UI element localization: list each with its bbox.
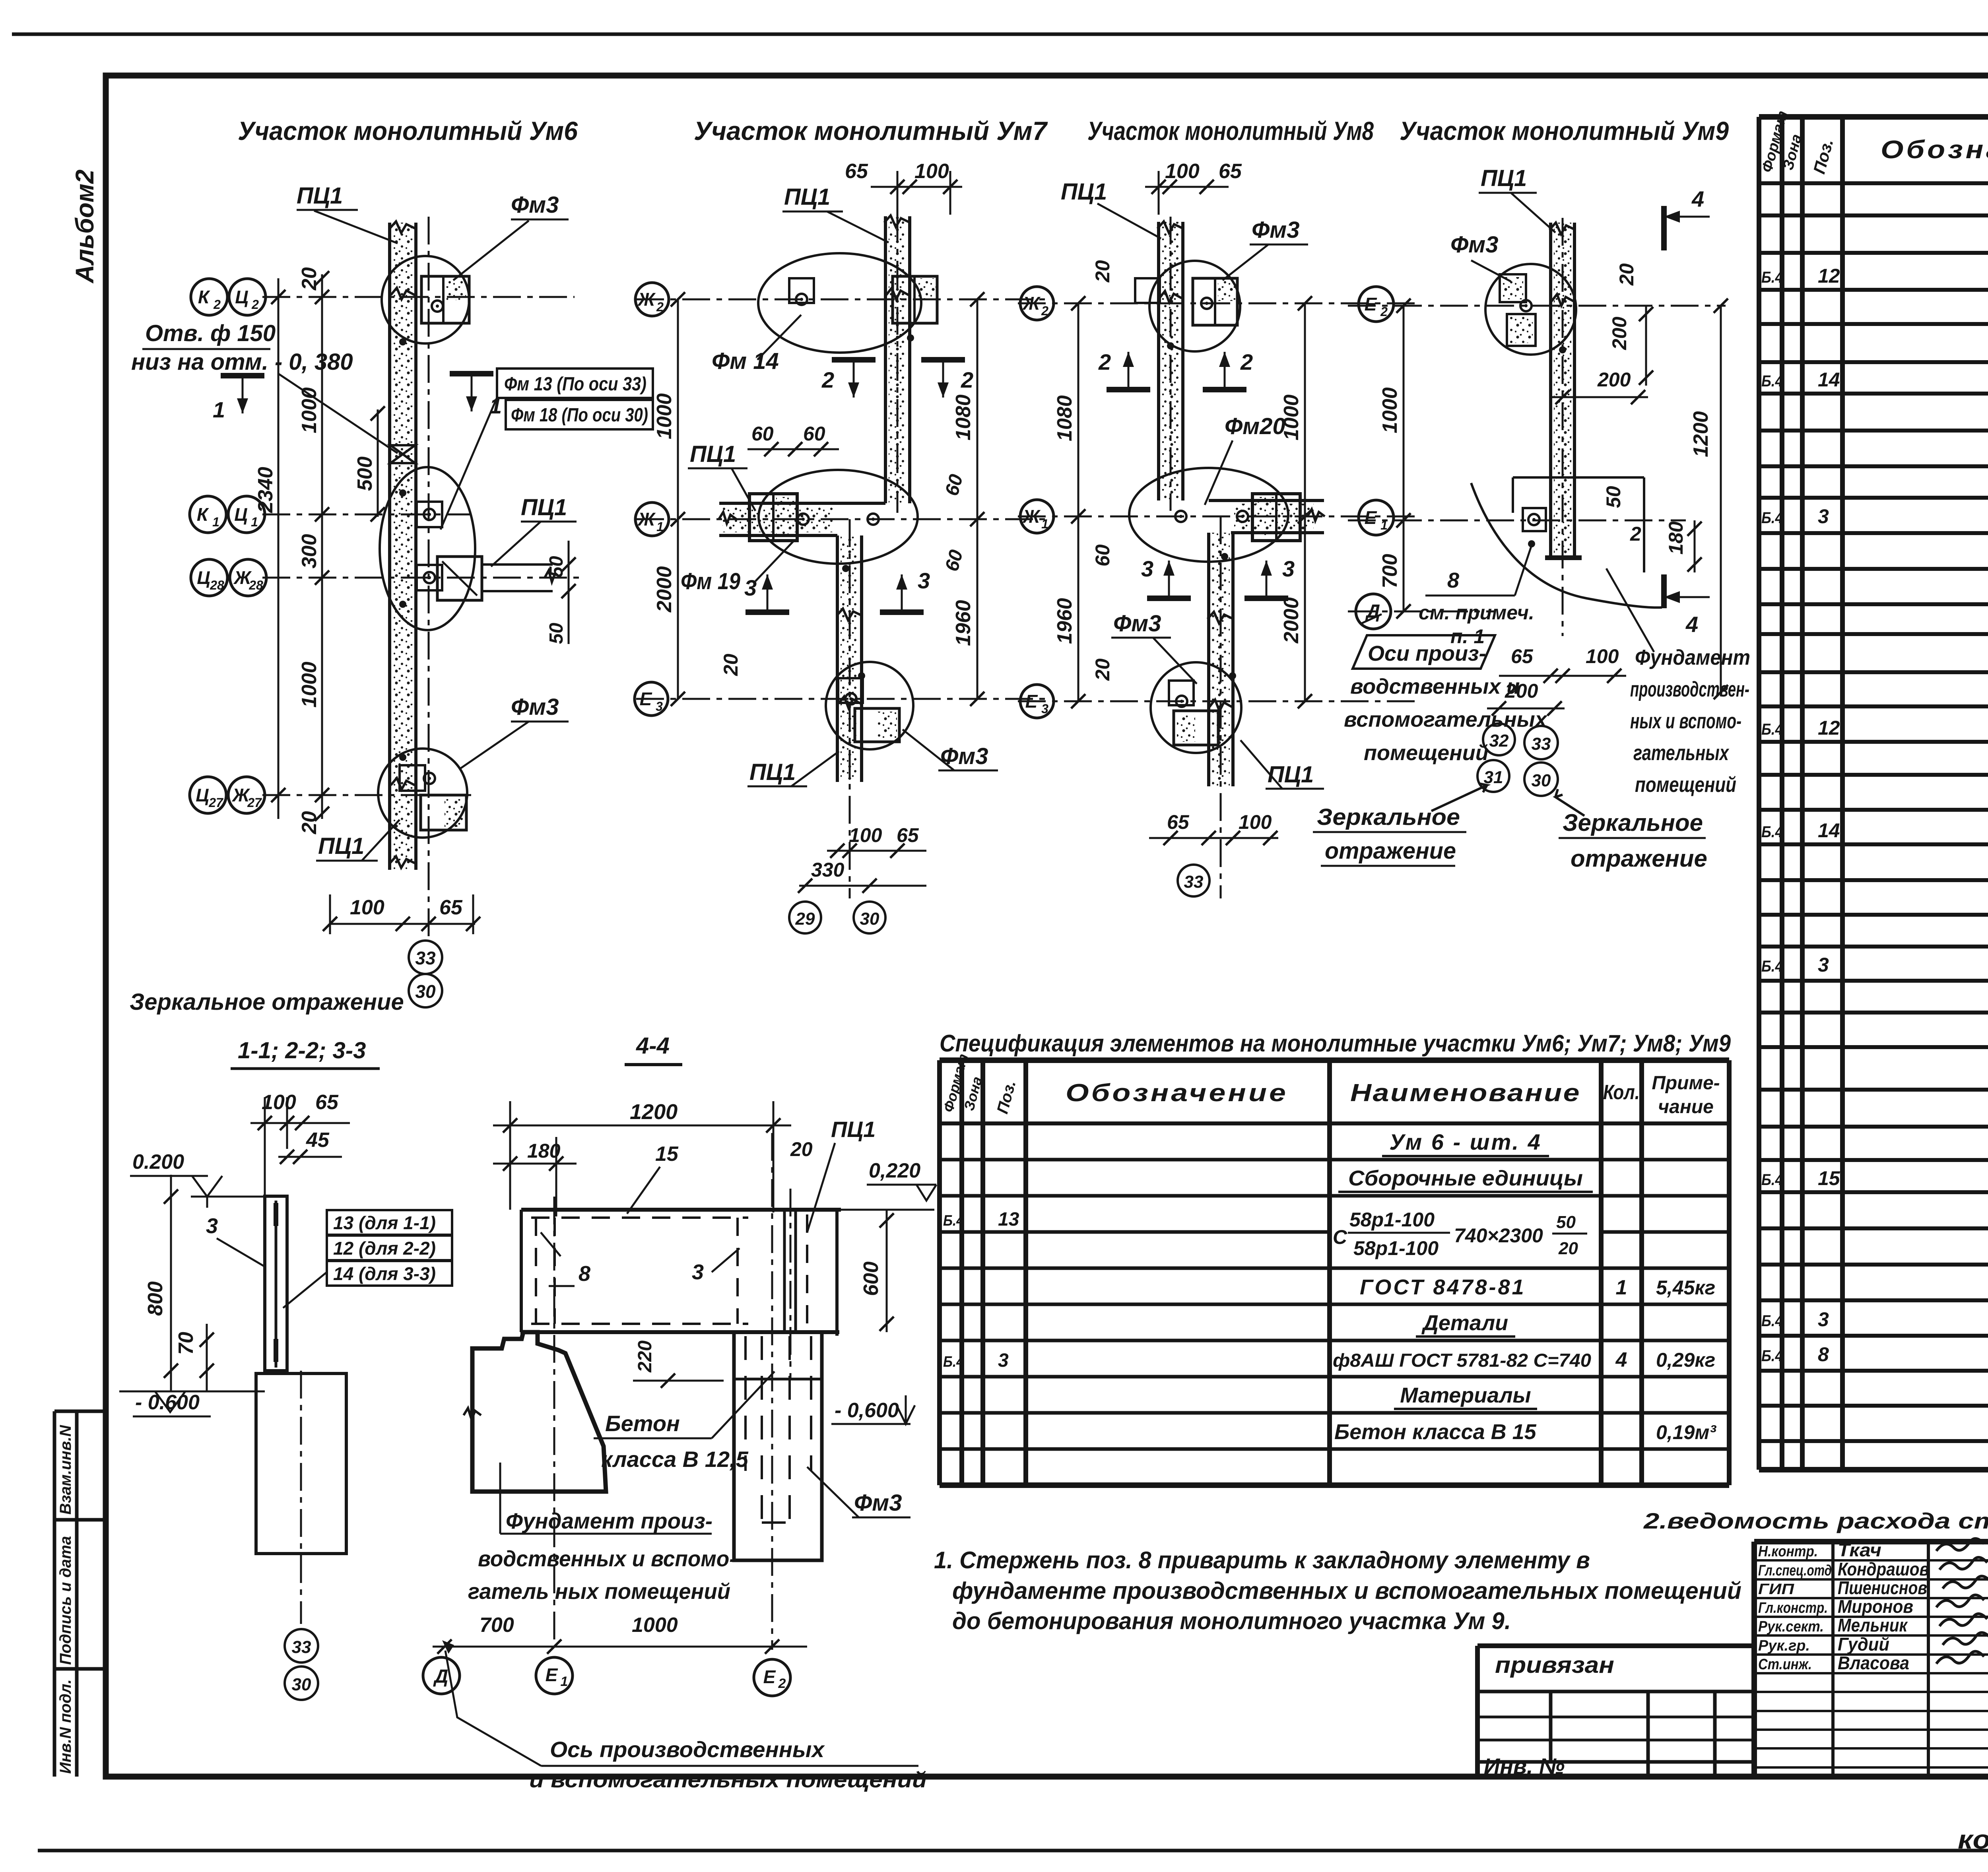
svg-text:Б.4: Б.4 xyxy=(1761,958,1783,975)
Um6 bottom dims 100 65 xyxy=(330,923,475,925)
svg-text:2: 2 xyxy=(213,297,221,312)
svg-text:Ж: Ж xyxy=(637,509,656,530)
svg-text:15: 15 xyxy=(1818,1167,1840,1189)
svg-text:ГИП: ГИП xyxy=(1758,1581,1794,1598)
svg-text:1: 1 xyxy=(213,397,225,422)
svg-text:50: 50 xyxy=(546,623,567,644)
svg-text:Обозначение: Обозначение xyxy=(1066,1079,1288,1107)
svg-text:Бетон: Бетон xyxy=(605,1411,680,1436)
svg-text:Миронов: Миронов xyxy=(1838,1596,1913,1617)
svg-text:33: 33 xyxy=(1184,872,1204,892)
svg-text:2: 2 xyxy=(1630,523,1641,545)
Um9 section 4 marker top xyxy=(1661,206,1667,250)
svg-text:помещений: помещений xyxy=(1364,741,1489,765)
Um7 section 3 markers xyxy=(745,609,789,615)
svg-text:32: 32 xyxy=(1489,731,1509,751)
Um9 dim 1200 xyxy=(1720,306,1722,692)
svg-text:ф8АШ ГОСТ 5781-82 С=740: ф8АШ ГОСТ 5781-82 С=740 xyxy=(1333,1350,1591,1371)
svg-text:Участок монолитный Ум8: Участок монолитный Ум8 xyxy=(1087,116,1374,145)
svg-text:65: 65 xyxy=(1167,811,1190,833)
svg-text:водственных и: водственных и xyxy=(1350,675,1520,698)
svg-text:Е: Е xyxy=(546,1664,558,1685)
Um6 top detail node xyxy=(382,256,469,343)
svg-text:2: 2 xyxy=(961,367,973,392)
Um8 bottom dims 65 100 xyxy=(1149,837,1278,839)
svg-text:Ц: Ц xyxy=(234,504,248,525)
Um9 wall xyxy=(1549,223,1552,558)
svg-text:58р1-100: 58р1-100 xyxy=(1353,1237,1439,1259)
svg-text:гательных: гательных xyxy=(1633,741,1730,765)
svg-text:20: 20 xyxy=(298,811,321,834)
svg-text:Ж: Ж xyxy=(1022,293,1041,314)
svg-text:1000: 1000 xyxy=(653,393,676,439)
svg-text:1-1; 2-2; 3-3: 1-1; 2-2; 3-3 xyxy=(238,1038,366,1063)
svg-text:100: 100 xyxy=(849,824,882,846)
svg-text:2: 2 xyxy=(656,300,664,314)
svg-text:Фм3: Фм3 xyxy=(511,694,559,720)
svg-text:700: 700 xyxy=(1378,554,1402,588)
Um6 axis K1 C1 xyxy=(262,514,471,516)
sec44 foundation caption xyxy=(499,1463,501,1534)
svg-text:65: 65 xyxy=(439,896,463,919)
svg-text:20: 20 xyxy=(1615,263,1638,286)
svg-text:Ц: Ц xyxy=(235,287,248,307)
svg-text:0.200: 0.200 xyxy=(132,1150,184,1174)
svg-text:ПЦ1: ПЦ1 xyxy=(749,759,796,785)
svg-text:12: 12 xyxy=(1818,265,1840,287)
svg-text:12: 12 xyxy=(1818,717,1840,739)
svg-text:Б.4: Б.4 xyxy=(1761,1347,1783,1365)
svg-text:45: 45 xyxy=(306,1129,330,1152)
sheet bottom border line xyxy=(38,1849,1988,1853)
svg-text:1200: 1200 xyxy=(630,1100,678,1124)
svg-text:Д: Д xyxy=(433,1666,448,1687)
Um8 axis E3 xyxy=(1018,700,1419,702)
svg-text:Отв. ф 150: Отв. ф 150 xyxy=(145,320,276,346)
svg-text:800: 800 xyxy=(144,1281,167,1316)
svg-text:20: 20 xyxy=(1091,658,1114,681)
svg-text:помещений: помещений xyxy=(1635,773,1736,797)
svg-text:Материалы: Материалы xyxy=(1400,1383,1531,1407)
svg-text:производствен-: производствен- xyxy=(1630,677,1749,701)
svg-text:и вспомогательных помещений: и вспомогательных помещений xyxy=(529,1767,927,1792)
svg-text:вспомогательных: вспомогательных xyxy=(1344,708,1548,731)
svg-text:Фм3: Фм3 xyxy=(1252,217,1299,243)
svg-text:Ум 6 - шт. 4: Ум 6 - шт. 4 xyxy=(1389,1129,1542,1154)
svg-text:4: 4 xyxy=(1691,186,1704,211)
svg-text:12 (для 2-2): 12 (для 2-2) xyxy=(333,1238,436,1259)
svg-text:33: 33 xyxy=(292,1637,311,1657)
Um7 top detail node xyxy=(758,253,921,353)
svg-text:2.ведомость расхода стали: 2.ведомость расхода стали на Ум6, Ум7, У… xyxy=(1643,1508,1988,1533)
svg-text:8: 8 xyxy=(579,1262,590,1286)
svg-text:200: 200 xyxy=(1505,680,1538,702)
svg-text:С: С xyxy=(1333,1226,1347,1248)
svg-text:ПЦ1: ПЦ1 xyxy=(1061,179,1107,205)
svg-text:Б.4: Б.4 xyxy=(1761,1171,1783,1189)
svg-text:0,19м³: 0,19м³ xyxy=(1656,1421,1716,1443)
svg-text:1960: 1960 xyxy=(952,600,975,646)
svg-text:220: 220 xyxy=(635,1340,656,1373)
svg-text:70: 70 xyxy=(175,1332,198,1355)
svg-text:Зеркальное: Зеркальное xyxy=(1563,809,1703,836)
svg-text:копировал Варич: копировал Варич xyxy=(1958,1825,1988,1854)
Um6 bottom axis circles 33 30 xyxy=(409,941,442,974)
svg-text:Зеркальное отражение: Зеркальное отражение xyxy=(130,989,404,1015)
Um8 top detail node xyxy=(1149,261,1240,351)
svg-text:3: 3 xyxy=(692,1260,704,1284)
svg-text:Гудий: Гудий xyxy=(1838,1634,1889,1655)
svg-text:29: 29 xyxy=(795,909,815,929)
Um8 middle detail node xyxy=(1129,468,1288,562)
Um6 axis C28 Zh28 xyxy=(262,577,580,579)
svg-text:5,45кг: 5,45кг xyxy=(1656,1276,1715,1299)
svg-text:3: 3 xyxy=(744,575,757,600)
svg-text:фундаменте производственных: фундаменте производственных и вспомогате… xyxy=(952,1577,1741,1604)
svg-text:Бетон класса В 15: Бетон класса В 15 xyxy=(1334,1420,1537,1444)
Um7 dim 1080 right xyxy=(977,299,978,519)
svg-text:2: 2 xyxy=(251,297,259,312)
svg-text:низ на отм. - 0, 380: низ на отм. - 0, 380 xyxy=(131,349,353,375)
Um8 bottom detail node xyxy=(1151,662,1241,753)
sheet top border line xyxy=(12,33,1988,36)
Um8 axis Zh2 xyxy=(1018,303,1419,305)
Um7 axis Zh1 xyxy=(636,518,1050,520)
Um9 axis E1 xyxy=(1348,520,1686,522)
svg-text:33: 33 xyxy=(1532,734,1551,754)
svg-text:50: 50 xyxy=(546,556,567,577)
svg-text:Гл.спец.отд: Гл.спец.отд xyxy=(1758,1562,1832,1579)
Um6 bottom detail node xyxy=(378,749,467,838)
svg-text:180: 180 xyxy=(527,1140,561,1162)
svg-text:200: 200 xyxy=(1597,369,1631,391)
Um9 axis E2 xyxy=(1348,305,1726,307)
svg-text:3: 3 xyxy=(1818,505,1829,528)
sec11 circles 33 30 xyxy=(285,1629,318,1662)
svg-text:1: 1 xyxy=(1380,518,1388,532)
svg-text:20: 20 xyxy=(790,1138,813,1160)
svg-text:Ж: Ж xyxy=(637,289,656,310)
sec44 dim 600 xyxy=(886,1210,888,1332)
Um9 foundation top line xyxy=(1513,476,1644,479)
svg-text:Ось производственных: Ось производственных xyxy=(550,1737,825,1762)
sec44 right column foundation xyxy=(734,1332,822,1560)
svg-text:Б.4: Б.4 xyxy=(1761,1312,1783,1330)
sec11 wall section xyxy=(265,1196,287,1371)
svg-text:13 (для 1-1): 13 (для 1-1) xyxy=(333,1212,436,1233)
svg-text:8: 8 xyxy=(1447,568,1459,592)
svg-text:100: 100 xyxy=(1239,811,1272,833)
svg-text:Инв. №: Инв. № xyxy=(1484,1754,1565,1779)
svg-text:Фм3: Фм3 xyxy=(511,192,559,218)
svg-text:3: 3 xyxy=(1282,556,1295,581)
svg-text:2: 2 xyxy=(1240,349,1253,374)
svg-text:Приме-: Приме- xyxy=(1652,1073,1720,1094)
svg-text:Фм3: Фм3 xyxy=(1450,232,1498,258)
left margin stamp strip xyxy=(53,1411,56,1777)
svg-text:500: 500 xyxy=(353,456,377,491)
svg-text:Е: Е xyxy=(763,1666,776,1687)
svg-text:Е: Е xyxy=(1365,507,1377,528)
sec11 boxed labels 13 12 14 xyxy=(327,1210,452,1235)
Um9 section 4 marker bottom xyxy=(1661,574,1667,608)
svg-text:Фм20: Фм20 xyxy=(1225,413,1285,439)
sec44 axis caption xyxy=(442,1640,454,1654)
svg-text:Мельник: Мельник xyxy=(1838,1615,1908,1635)
svg-text:Подпись и дата: Подпись и дата xyxy=(57,1536,74,1665)
Um8 T-joint xyxy=(1209,499,1324,502)
svg-text:1: 1 xyxy=(656,520,664,534)
svg-text:Рук.сект.: Рук.сект. xyxy=(1758,1618,1824,1635)
Um8 dim 1080 left xyxy=(1077,303,1079,516)
svg-text:Детали: Детали xyxy=(1421,1311,1508,1335)
svg-text:Сборочные единицы: Сборочные единицы xyxy=(1348,1166,1583,1190)
svg-text:до бетонирования монолитног: до бетонирования монолитного участка Ум … xyxy=(952,1608,1511,1634)
title block (stamp) xyxy=(1754,1539,1988,1544)
svg-text:13: 13 xyxy=(998,1209,1019,1230)
svg-text:1000: 1000 xyxy=(1378,387,1402,433)
svg-text:Кол.: Кол. xyxy=(1603,1081,1640,1104)
Um7 T-joint walls xyxy=(719,502,885,505)
svg-text:Фм3: Фм3 xyxy=(854,1490,902,1516)
svg-text:180: 180 xyxy=(1665,521,1687,555)
svg-text:3: 3 xyxy=(1141,556,1153,581)
svg-text:ных и вспомо-: ных и вспомо- xyxy=(1630,709,1741,733)
privyazan box xyxy=(1477,1643,1754,1648)
Um7 middle detail node xyxy=(759,470,918,564)
svg-text:Б.4: Б.4 xyxy=(1761,269,1783,286)
svg-text:15: 15 xyxy=(655,1143,679,1166)
svg-text:см. примеч.: см. примеч. xyxy=(1419,601,1534,624)
Um7 axis E3 xyxy=(636,698,1050,700)
svg-text:Пшениснов: Пшениснов xyxy=(1838,1577,1927,1598)
svg-text:Б.4: Б.4 xyxy=(943,1354,964,1370)
svg-text:Инв.N подл.: Инв.N подл. xyxy=(57,1679,74,1774)
svg-text:50: 50 xyxy=(1556,1212,1576,1232)
Um9 axis D xyxy=(1348,611,1495,613)
svg-text:30: 30 xyxy=(1532,771,1551,790)
svg-text:2000: 2000 xyxy=(653,566,676,613)
svg-text:14 (для 3-3): 14 (для 3-3) xyxy=(333,1263,436,1284)
svg-text:Фм 14: Фм 14 xyxy=(712,348,779,374)
sec44 left foundation console profile xyxy=(472,1332,606,1492)
svg-text:Обозначение: Обозначение xyxy=(1881,135,1988,164)
svg-text:1960: 1960 xyxy=(1053,598,1076,644)
svg-text:ПЦ1: ПЦ1 xyxy=(1268,762,1314,788)
Um7 bottom detail node xyxy=(826,662,913,749)
svg-text:30: 30 xyxy=(292,1675,311,1694)
svg-text:отражение: отражение xyxy=(1571,845,1707,872)
Um6 Fm13/Fm18 boxed labels xyxy=(497,369,653,398)
svg-text:60: 60 xyxy=(1091,544,1114,566)
svg-text:100: 100 xyxy=(914,160,949,183)
svg-text:0,220: 0,220 xyxy=(869,1159,920,1182)
Um6 vertical centerline xyxy=(428,217,430,938)
svg-text:3: 3 xyxy=(1041,702,1048,716)
svg-text:Ст.инж.: Ст.инж. xyxy=(1758,1656,1812,1673)
svg-text:300: 300 xyxy=(298,534,321,568)
Um9 wall base xyxy=(1545,555,1582,560)
svg-text:1000: 1000 xyxy=(632,1614,678,1637)
svg-text:600: 600 xyxy=(860,1261,883,1296)
svg-text:ПЦ1: ПЦ1 xyxy=(1481,165,1527,191)
svg-text:8: 8 xyxy=(1818,1343,1829,1366)
svg-text:Спецификация элементов на моно: Спецификация элементов на монолитные уча… xyxy=(940,1030,1731,1057)
svg-text:3: 3 xyxy=(656,699,663,714)
svg-text:Е: Е xyxy=(640,689,652,709)
svg-text:4: 4 xyxy=(1685,612,1698,637)
Um7 dim 1000 left xyxy=(677,299,679,519)
svg-text:30: 30 xyxy=(860,909,879,929)
Um6 right stub at Zh28 xyxy=(437,557,482,600)
svg-text:чание: чание xyxy=(1658,1096,1714,1117)
svg-text:ПЦ1: ПЦ1 xyxy=(831,1117,876,1142)
Um6 wall column xyxy=(388,223,391,870)
svg-text:1: 1 xyxy=(561,1674,568,1689)
svg-text:Взам.инв.N: Взам.инв.N xyxy=(57,1425,74,1515)
svg-text:Б.4: Б.4 xyxy=(943,1212,964,1229)
svg-text:ГОСТ 8478-81: ГОСТ 8478-81 xyxy=(1360,1275,1526,1299)
svg-text:Альбом2: Альбом2 xyxy=(70,169,99,284)
svg-text:700: 700 xyxy=(480,1614,514,1637)
svg-text:65: 65 xyxy=(897,824,919,846)
svg-text:3: 3 xyxy=(206,1214,218,1238)
Um9 circles 32 31 xyxy=(1483,724,1515,755)
svg-text:Б.4: Б.4 xyxy=(1761,509,1783,527)
Um6 axis K2 C2 xyxy=(262,296,575,298)
svg-text:14: 14 xyxy=(1818,369,1840,391)
svg-text:Оси произ-: Оси произ- xyxy=(1368,642,1486,665)
svg-text:3: 3 xyxy=(998,1350,1009,1371)
Um8 dim 1000 right xyxy=(1304,303,1306,516)
svg-text:Власова: Власова xyxy=(1838,1653,1909,1673)
Um8 dim 1960 left xyxy=(1077,516,1079,701)
svg-text:Е: Е xyxy=(1365,294,1377,314)
svg-text:2: 2 xyxy=(1380,305,1388,319)
svg-text:- 0.600: - 0.600 xyxy=(135,1391,200,1414)
svg-text:отражение: отражение xyxy=(1325,838,1456,864)
sec44 slab plan xyxy=(521,1208,841,1212)
svg-text:20: 20 xyxy=(1091,260,1114,283)
svg-text:100: 100 xyxy=(1586,645,1619,667)
svg-text:20: 20 xyxy=(720,654,742,676)
svg-text:60: 60 xyxy=(751,423,774,445)
svg-text:Фм 13 (По оси 33): Фм 13 (По оси 33) xyxy=(504,374,646,395)
svg-text:1: 1 xyxy=(1041,517,1048,531)
svg-text:100: 100 xyxy=(1165,160,1200,183)
svg-text:4-4: 4-4 xyxy=(636,1033,670,1059)
svg-text:1: 1 xyxy=(212,515,219,529)
Um6 axis C27 Zh27 xyxy=(262,794,471,796)
svg-text:ПЦ1: ПЦ1 xyxy=(784,184,830,210)
svg-text:27: 27 xyxy=(208,795,224,810)
svg-text:33: 33 xyxy=(415,948,436,968)
svg-text:100: 100 xyxy=(262,1091,296,1114)
svg-text:27: 27 xyxy=(247,795,262,810)
svg-text:30: 30 xyxy=(415,981,436,1002)
svg-text:60: 60 xyxy=(803,423,825,445)
Um7 bottom circles 29 30 xyxy=(789,902,821,933)
svg-text:65: 65 xyxy=(1511,645,1534,667)
svg-text:2: 2 xyxy=(821,367,834,392)
svg-text:Участок монолитный Ум9: Участок монолитный Ум9 xyxy=(1400,116,1729,145)
Um7 dim 1960 right xyxy=(977,519,978,699)
Um8 lower wall xyxy=(1207,533,1210,786)
svg-text:К: К xyxy=(198,287,210,307)
svg-text:200: 200 xyxy=(1608,316,1631,350)
svg-text:Фм 19: Фм 19 xyxy=(681,568,740,594)
svg-text:1080: 1080 xyxy=(1053,395,1076,441)
svg-text:Б.4: Б.4 xyxy=(1761,721,1783,738)
svg-text:Участок монолитный Ум6: Участок монолитный Ум6 xyxy=(238,116,578,145)
svg-text:Фм 18 (По оси 30): Фм 18 (По оси 30) xyxy=(511,405,648,426)
svg-text:2340: 2340 xyxy=(254,467,277,513)
Um8 section 3 markers xyxy=(1147,596,1191,601)
Um9 foundation break curve xyxy=(1471,483,1662,607)
svg-text:Н.контр.: Н.контр. xyxy=(1758,1543,1818,1560)
Um9 dims 1000 700 left xyxy=(1403,306,1405,611)
svg-text:50: 50 xyxy=(1602,486,1625,508)
svg-text:3: 3 xyxy=(918,568,930,593)
svg-text:Рук.гр.: Рук.гр. xyxy=(1758,1637,1810,1654)
Um7 lower wall xyxy=(836,535,839,782)
sec44 column PC1 through slab xyxy=(783,1210,786,1332)
Um6 section 1-1 markers xyxy=(221,373,264,378)
svg-text:2000: 2000 xyxy=(1280,597,1303,644)
svg-text:65: 65 xyxy=(315,1091,339,1114)
svg-text:2: 2 xyxy=(1041,304,1048,318)
svg-text:Наименование: Наименование xyxy=(1350,1079,1581,1107)
Um9 osi proiz text with frame xyxy=(1353,635,1495,669)
svg-text:58р1-100: 58р1-100 xyxy=(1349,1209,1435,1231)
svg-text:Гл.констр.: Гл.констр. xyxy=(1758,1600,1828,1616)
svg-text:Кондрашов: Кондрашов xyxy=(1838,1559,1929,1579)
svg-text:Е: Е xyxy=(1025,691,1038,712)
svg-text:1: 1 xyxy=(251,515,258,529)
Um8 section 2 markers xyxy=(1107,387,1150,392)
svg-text:1080: 1080 xyxy=(952,394,975,440)
svg-text:Ц: Ц xyxy=(196,785,209,805)
svg-text:1000: 1000 xyxy=(298,662,321,708)
Um7 section 2 markers xyxy=(832,357,876,363)
svg-text:Фм3: Фм3 xyxy=(1113,611,1161,636)
svg-text:Б.4: Б.4 xyxy=(1761,372,1783,390)
svg-text:ПЦ1: ПЦ1 xyxy=(690,441,736,467)
svg-text:Ц: Ц xyxy=(197,567,210,588)
sec11 foundation below xyxy=(256,1373,346,1554)
Um8 upper wall xyxy=(1157,222,1160,500)
svg-text:Ж: Ж xyxy=(1022,506,1041,527)
svg-text:Фундамент произ-: Фундамент произ- xyxy=(506,1508,712,1533)
svg-text:класса В 12,5: класса В 12,5 xyxy=(601,1447,749,1472)
svg-text:65: 65 xyxy=(845,160,868,183)
svg-text:20: 20 xyxy=(1558,1239,1578,1258)
svg-text:2: 2 xyxy=(778,1676,786,1691)
Um9 circles 33 30 xyxy=(1524,726,1558,759)
svg-text:Б.4: Б.4 xyxy=(1761,823,1783,841)
svg-text:Ткач: Ткач xyxy=(1838,1540,1881,1560)
svg-text:1200: 1200 xyxy=(1689,411,1712,457)
svg-text:740×2300: 740×2300 xyxy=(1454,1224,1543,1247)
svg-text:4: 4 xyxy=(1615,1348,1627,1372)
Um9 top detail node xyxy=(1485,264,1576,355)
svg-text:28: 28 xyxy=(248,578,263,592)
svg-text:гатель ных помещений: гатель ных помещений xyxy=(468,1579,730,1604)
svg-text:водственных и вспомо-: водственных и вспомо- xyxy=(478,1546,736,1571)
sec11 dim 800 xyxy=(170,1175,172,1391)
svg-text:20: 20 xyxy=(298,267,321,291)
svg-text:330: 330 xyxy=(811,859,845,881)
